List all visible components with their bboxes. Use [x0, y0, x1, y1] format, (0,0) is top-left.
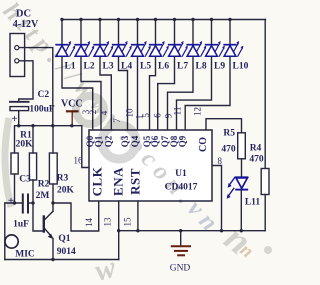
svg-text:6: 6 [152, 113, 162, 118]
wire collector to CLK pin 14 [53, 201, 99, 231]
LED L1 [60, 18, 63, 21]
svg-text:100uF: 100uF [29, 105, 55, 115]
svg-text:L3: L3 [103, 62, 114, 72]
svg-text:470: 470 [221, 145, 236, 155]
svg-text:16: 16 [74, 156, 84, 166]
svg-text:R2: R2 [38, 180, 50, 190]
wire L1 to IC pin [62, 56, 93, 130]
svg-text:CLK: CLK [90, 166, 105, 196]
svg-text:20K: 20K [16, 140, 34, 150]
svg-text:R3: R3 [57, 174, 69, 184]
LED L7 [173, 18, 176, 21]
svg-text:5: 5 [141, 113, 151, 118]
wire L3 to IC pin [100, 56, 111, 130]
svg-text:L7: L7 [177, 62, 188, 72]
wire lower-left ground rail [5, 259, 119, 261]
wire L11 to ground [240, 190, 242, 231]
LED L10 [228, 18, 231, 21]
wire DC+ to VCC riser [19, 48, 53, 126]
svg-text:14: 14 [84, 218, 94, 228]
capacitor C3 1uF [22, 195, 24, 213]
wire L7 to IC pin [158, 56, 175, 130]
wire L6 to IC pin [150, 56, 156, 130]
wire top rail (LED cathode bus) [62, 19, 266, 21]
svg-text:470: 470 [249, 155, 264, 165]
svg-text:L5: L5 [140, 62, 151, 72]
svg-text:2M: 2M [36, 191, 50, 201]
wire C3/R2 node to Q1 base [33, 203, 43, 231]
svg-text:GND: GND [170, 264, 191, 274]
wire right edge to R4 [264, 20, 266, 169]
wire DC- to C2 [19, 61, 33, 102]
LED L8 [191, 18, 194, 21]
connector J1 (DC input) [10, 34, 25, 77]
LED L6 [154, 18, 157, 21]
svg-text:L11: L11 [245, 198, 261, 208]
LED L3 [98, 18, 101, 21]
LED L4 [117, 18, 120, 21]
ground symbol [180, 231, 182, 246]
wire R5 to L11 [241, 159, 243, 177]
svg-text:L10: L10 [233, 62, 249, 72]
svg-text:L8: L8 [196, 62, 207, 72]
junction dots on VCC row [17, 124, 20, 127]
svg-text:Q9: Q9 [178, 135, 188, 147]
wire pin 13 to ground [118, 201, 120, 231]
wire L2 to IC pin [81, 56, 101, 130]
wire L5 to IC pin [137, 56, 139, 130]
svg-text:1uF: 1uF [13, 220, 29, 230]
LED L9 [210, 18, 213, 21]
svg-text:C2: C2 [37, 90, 49, 100]
svg-text:L9: L9 [214, 62, 225, 72]
svg-text:CO: CO [198, 137, 209, 152]
node collector [51, 201, 54, 204]
capacitor C2 100uF [10, 101, 29, 103]
wire L9 to IC pin [177, 56, 212, 130]
svg-text:20K: 20K [57, 186, 75, 196]
svg-text:15: 15 [123, 217, 133, 227]
wire pin 15 to ground [137, 201, 139, 231]
resistor R2 2M [29, 153, 36, 180]
resistor R3 20K [49, 153, 57, 184]
svg-text:C3: C3 [19, 175, 31, 185]
svg-text:R4: R4 [250, 144, 262, 154]
resistor R1 20K [11, 153, 18, 174]
svg-text:11: 11 [172, 107, 182, 116]
op-amp U1 CD4017 (IC box) [89, 130, 212, 201]
svg-text:R5: R5 [223, 129, 235, 139]
svg-text:Q1: Q1 [58, 234, 70, 244]
wire L8 to IC pin [168, 56, 194, 130]
LED L5 [136, 18, 139, 21]
wire main ground rail [119, 230, 266, 232]
svg-text:MIC: MIC [15, 250, 35, 260]
resistor R5 470 [238, 133, 246, 159]
wire L10 to IC pin [185, 56, 230, 130]
node: VCC rail (horizontal distribution row) [15, 126, 90, 168]
svg-text:8: 8 [217, 156, 222, 166]
svg-text:L6: L6 [158, 62, 169, 72]
node: input row [5, 202, 23, 204]
VCC supply symbol [67, 110, 78, 112]
LED L2 [79, 18, 82, 21]
svg-text:12: 12 [193, 107, 203, 116]
wire pin 8 to ground [212, 166, 222, 231]
resistor R4 470 [261, 169, 269, 195]
LED L11 [236, 176, 248, 178]
wire CO pin12 to R5 [206, 119, 242, 133]
svg-text:13: 13 [103, 217, 113, 227]
svg-text:ENA: ENA [111, 167, 126, 196]
svg-text:9014: 9014 [57, 247, 76, 257]
wire L4 to IC pin [119, 56, 128, 130]
svg-text:RST: RST [128, 168, 143, 195]
wire C2+ to VCC row [18, 111, 20, 126]
transistor Q1 9014 [43, 217, 45, 232]
microphone MIC [4, 203, 6, 260]
